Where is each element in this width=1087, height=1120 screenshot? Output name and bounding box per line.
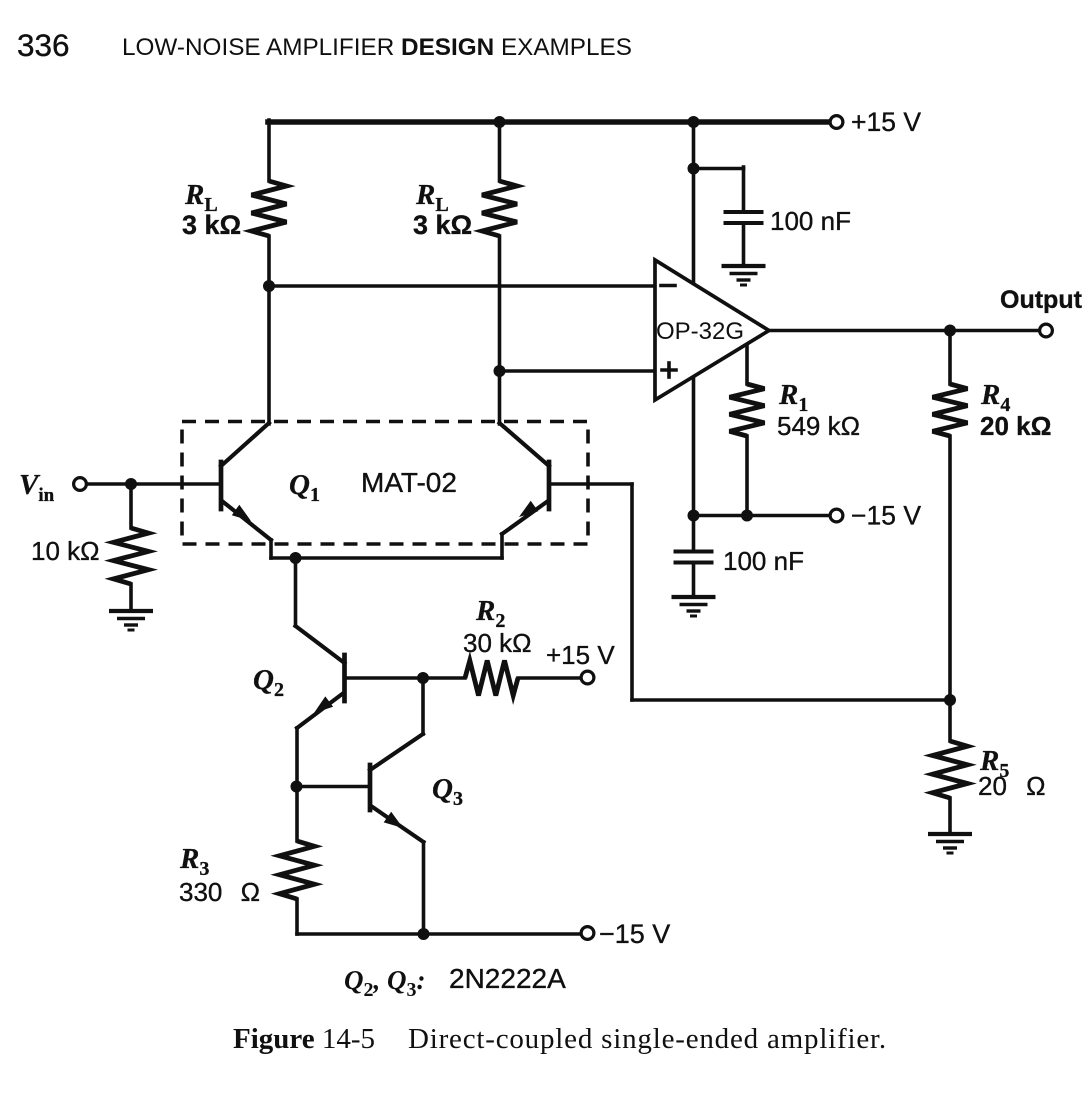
wire right RL top <box>498 122 502 181</box>
wire cap1 horizontal <box>694 167 744 171</box>
svg-text:3 kΩ: 3 kΩ <box>182 210 241 240</box>
resistor R3 <box>280 841 315 899</box>
node input/10k <box>125 478 137 490</box>
svg-text:2N2222A: 2N2222A <box>449 963 566 994</box>
Q1 left emitter diagonal <box>222 501 271 540</box>
Q3 collector diagonal <box>370 734 423 770</box>
Q2 collector diagonal <box>296 626 345 663</box>
wire R1 bottom <box>745 436 749 516</box>
node R1/-15V <box>741 510 753 522</box>
wire inverting input <box>269 284 657 288</box>
wire -15V feed <box>694 514 831 518</box>
terminal Vin <box>74 478 87 491</box>
wire R2 right <box>518 676 581 680</box>
svg-text:10 kΩ: 10 kΩ <box>31 536 100 566</box>
Q3 emitter diagonal <box>371 806 424 842</box>
resistor RL left <box>252 181 287 236</box>
wire 10k bottom <box>129 584 133 609</box>
svg-text:30 kΩ: 30 kΩ <box>463 628 532 658</box>
node Q3 emitter / bottom rail <box>418 928 430 940</box>
ground cap1 <box>722 264 766 268</box>
wire left RL top <box>267 120 271 181</box>
terminal output <box>1040 324 1053 337</box>
wire R5 bottom <box>948 798 952 832</box>
svg-text:−15 V: −15 V <box>599 919 670 949</box>
Q2 emitter diagonal <box>297 693 344 728</box>
op-amp U1 OP-32G <box>655 260 769 400</box>
wire R5 top <box>948 700 952 741</box>
svg-text:Q3: Q3 <box>432 773 463 810</box>
node plus-input / right collector <box>494 365 506 377</box>
svg-text:+15 V: +15 V <box>851 107 921 137</box>
resistor R5 <box>933 741 968 798</box>
node Q2 base / Q3 collector / R2 <box>417 672 429 684</box>
terminal -15V mid <box>830 509 843 522</box>
Q1 right collector diagonal <box>500 423 550 466</box>
node Q2 emitter / Q3 base / R3 <box>291 781 303 793</box>
wire Q3 base <box>297 785 370 789</box>
wire Q2 base out <box>345 676 424 680</box>
wire Q3 emitter down <box>422 842 426 934</box>
transistor Q1 left base bar <box>219 462 224 509</box>
node output / R4 <box>944 325 956 337</box>
svg-text:336: 336 <box>17 27 70 63</box>
wire cap1 to ground <box>742 223 746 264</box>
node R4/R5 <box>944 694 956 706</box>
svg-text:R2: R2 <box>475 595 505 632</box>
svg-text:100 nF: 100 nF <box>770 206 851 236</box>
ground R5 <box>928 832 972 836</box>
wire +15V top rail <box>268 119 830 125</box>
Q1 left collector diagonal <box>221 423 269 466</box>
svg-text:Figure 14-5: Figure 14-5 <box>233 1023 375 1055</box>
svg-text:−15 V: −15 V <box>851 501 921 531</box>
svg-text:Q2: Q2 <box>253 664 284 701</box>
wire cap1 down <box>742 167 746 212</box>
node emitter bus / Q2 collector <box>290 552 302 564</box>
wire R3 top <box>295 786 299 841</box>
node junction top rail / op-amp supply <box>688 116 700 128</box>
wire Q2 collector vertical <box>294 558 298 626</box>
node cap1 tap <box>688 163 700 175</box>
svg-text:Direct-coupled single-ended am: Direct-coupled single-ended amplifier. <box>408 1023 887 1055</box>
wire noninverting input <box>500 369 658 373</box>
wire R2 left <box>423 676 465 680</box>
Q1 right emitter down <box>500 534 504 558</box>
resistor RL right <box>482 181 517 236</box>
Q3 emitter arrow <box>384 812 403 828</box>
svg-text:Output: Output <box>1000 286 1083 314</box>
ground cap2 <box>672 595 716 599</box>
svg-text:Vin: Vin <box>19 469 55 506</box>
wire Q2 emitter down <box>295 728 299 786</box>
dual transistor package MAT-02 outline <box>182 422 588 545</box>
Q1 left emitter arrow <box>232 505 251 521</box>
op-amp plus pin mark <box>662 368 676 372</box>
transistor Q2 base bar <box>342 655 347 701</box>
svg-text:20 kΩ: 20 kΩ <box>980 411 1051 441</box>
wire Q3 collector vertical <box>421 678 425 734</box>
svg-text:549 kΩ: 549 kΩ <box>777 411 860 441</box>
svg-text:LOW-NOISE AMPLIFIER DESIGN EXA: LOW-NOISE AMPLIFIER DESIGN EXAMPLES <box>122 34 632 61</box>
svg-text:Q2, Q3:: Q2, Q3: <box>344 965 426 1001</box>
wire input <box>87 482 219 486</box>
terminal +15V top <box>830 116 843 129</box>
transistor Q1 right base bar <box>547 462 552 509</box>
wire 10k top <box>129 484 133 528</box>
ground input <box>109 609 153 613</box>
svg-text:MAT-02: MAT-02 <box>361 467 457 498</box>
node junction top rail / right RL <box>494 116 506 128</box>
wire feedback horizontal <box>632 698 950 702</box>
Q1 left emitter down <box>269 540 273 558</box>
svg-text:100 nF: 100 nF <box>723 546 804 576</box>
wire -15V bottom rail <box>297 932 581 936</box>
wire cap2 to ground <box>692 563 696 596</box>
svg-text:R3: R3 <box>179 843 209 880</box>
svg-text:Q1: Q1 <box>289 469 320 506</box>
wire feedback vertical <box>630 484 634 700</box>
svg-text:330 Ω: 330 Ω <box>179 877 260 907</box>
transistor Q3 base bar <box>368 765 373 810</box>
op-amp minus pin mark <box>661 284 675 288</box>
resistor R2 <box>465 661 518 696</box>
resistor 10 kOhm <box>114 528 149 584</box>
wire cap2 down <box>692 516 696 552</box>
wire R1 top <box>745 345 749 384</box>
svg-text:3 kΩ: 3 kΩ <box>413 210 472 240</box>
svg-text:20 Ω: 20 Ω <box>978 771 1046 801</box>
capacitor C 100nF bottom <box>674 550 714 554</box>
Q1 right emitter diagonal <box>502 501 548 534</box>
svg-text:OP-32G: OP-32G <box>656 318 744 345</box>
wire R4 top <box>948 331 952 385</box>
svg-text:+15 V: +15 V <box>546 640 615 670</box>
resistor R4 <box>933 384 968 436</box>
Q2 emitter arrow <box>314 696 333 713</box>
wire left RL bottom <box>267 236 271 424</box>
resistor R1 <box>730 384 765 436</box>
wire Q1 right base out <box>549 482 632 486</box>
wire R4 bottom <box>948 436 952 700</box>
capacitor C 100nF top <box>724 210 764 214</box>
node minus-input / left collector <box>263 280 275 292</box>
Q1 right emitter arrow <box>519 501 538 517</box>
wire right RL bottom <box>498 236 502 424</box>
wire emitter bus <box>271 556 502 560</box>
wire R3 bottom <box>295 899 299 934</box>
terminal +15V R2 <box>581 671 594 684</box>
wire op-amp supply vertical <box>692 122 696 516</box>
node supply/-15V <box>688 510 700 522</box>
wire output <box>769 329 1040 333</box>
terminal -15V bottom <box>581 927 594 940</box>
